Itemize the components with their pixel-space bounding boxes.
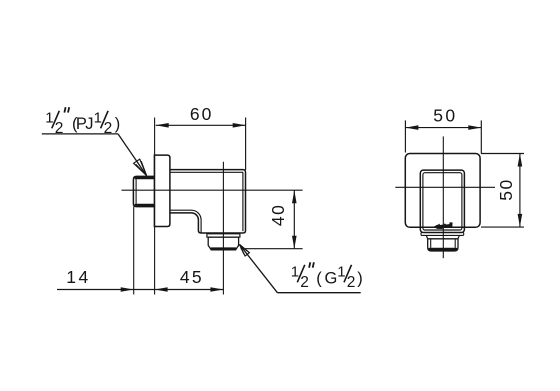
svg-text:2: 2 [104, 120, 113, 137]
svg-text:(G: (G [316, 269, 337, 287]
svg-text:2: 2 [55, 120, 64, 137]
svg-text:(PJ: (PJ [72, 115, 94, 133]
svg-text:): ) [357, 269, 363, 287]
svg-text:50: 50 [496, 180, 516, 201]
svg-text:1: 1 [291, 263, 299, 280]
svg-text:1: 1 [94, 109, 102, 126]
svg-text:1: 1 [337, 263, 345, 280]
svg-text:2: 2 [300, 274, 309, 291]
svg-text:1: 1 [45, 109, 53, 126]
svg-text:60: 60 [190, 104, 212, 124]
svg-text:40: 40 [268, 205, 288, 226]
svg-text:): ) [115, 115, 121, 133]
svg-text:2: 2 [347, 274, 356, 291]
